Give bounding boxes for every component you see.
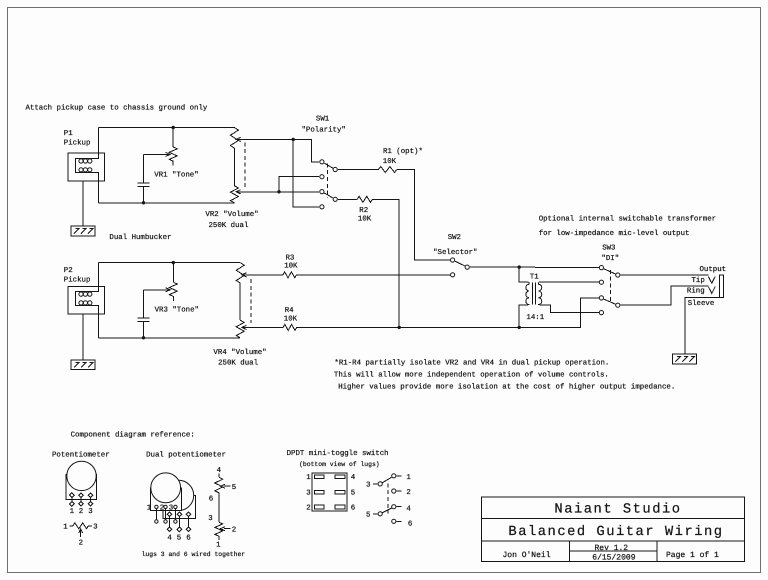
wire SW1 pole2 to R2 bbox=[338, 198, 357, 200]
jack bar bbox=[719, 275, 723, 297]
resistor R2 bbox=[357, 196, 372, 202]
svg-text:4: 4 bbox=[406, 505, 411, 513]
wire P1 case to ground bbox=[82, 181, 84, 226]
svg-text:R2: R2 bbox=[359, 207, 368, 215]
svg-text:10K: 10K bbox=[284, 262, 298, 270]
node wiper2 split bbox=[277, 190, 280, 193]
svg-text:Ring: Ring bbox=[687, 287, 705, 296]
svg-text:4: 4 bbox=[167, 535, 172, 543]
wire bottom bus P1 bbox=[98, 202, 234, 204]
wire SW1 pole1 to R1 bbox=[338, 169, 379, 171]
potentiometer VR4 "Volume" dual section A bbox=[236, 263, 244, 283]
wire wiper1 down to SW1 throw F bbox=[293, 139, 319, 206]
svg-text:Pickup: Pickup bbox=[64, 276, 91, 285]
svg-text:Sleeve: Sleeve bbox=[688, 299, 715, 308]
svg-text:250K dual: 250K dual bbox=[209, 221, 249, 230]
svg-text:Tip: Tip bbox=[692, 276, 705, 285]
switch SW3 DPDT contacts bbox=[599, 266, 620, 315]
svg-text:Output: Output bbox=[700, 266, 727, 274]
wire transformer primary top lead bbox=[519, 267, 527, 282]
wire sleeve to ground bbox=[685, 297, 720, 354]
pickup P2 bbox=[68, 263, 105, 338]
resistor R1 bbox=[378, 167, 396, 173]
dual pot schematic reference chain bbox=[208, 467, 236, 550]
wire VR2A wiper to SW1 bbox=[237, 139, 319, 161]
node VR3 top junction bbox=[172, 261, 175, 264]
potentiometer reference symbol bbox=[66, 461, 96, 516]
wiper VR2A arrow bbox=[236, 137, 241, 141]
node transformer tap bbox=[518, 265, 521, 268]
wiper VR4B arrow bbox=[242, 325, 247, 329]
svg-text:2: 2 bbox=[79, 508, 83, 516]
wire VR2 middle link bbox=[233, 148, 235, 186]
svg-text:VR4 "Volume": VR4 "Volume" bbox=[213, 348, 266, 357]
wire SW3 pole2 to ring bbox=[620, 286, 708, 305]
wire transformer secondary top to SW3 bbox=[541, 281, 599, 283]
resistor R4 bbox=[283, 324, 297, 330]
transformer T1 bbox=[526, 273, 545, 322]
svg-text:2: 2 bbox=[406, 489, 410, 497]
wire return bus R4 to SW3 bbox=[297, 298, 599, 328]
svg-text:Attach pickup case to chassis: Attach pickup case to chassis ground onl… bbox=[26, 104, 208, 113]
wiper VR4A arrow bbox=[242, 273, 247, 277]
svg-text:5: 5 bbox=[366, 511, 370, 519]
node wiper1 split bbox=[292, 138, 295, 141]
gang link VR2 dashed bbox=[244, 142, 246, 187]
svg-text:VR1 "Tone": VR1 "Tone" bbox=[154, 171, 198, 180]
svg-text:"Selector": "Selector" bbox=[433, 248, 477, 257]
wire VR3 top lead bbox=[172, 263, 174, 283]
SW3 gang dashed link bbox=[609, 270, 611, 304]
wire VR2B wiper to SW1 throw D bbox=[237, 191, 319, 193]
ground chassis P1 bbox=[71, 226, 95, 236]
wire VR4B wiper to R4 bbox=[243, 326, 284, 328]
gang link VR4 dashed bbox=[250, 279, 252, 323]
tip contact V bbox=[708, 277, 715, 284]
DPDT toggle body reference bbox=[306, 473, 356, 512]
SW1 blade section B bbox=[324, 193, 333, 198]
svg-text:Potentiometer: Potentiometer bbox=[52, 451, 110, 460]
svg-text:3: 3 bbox=[93, 523, 97, 531]
svg-text:VR2 "Volume": VR2 "Volume" bbox=[205, 210, 258, 219]
wire transformer secondary bottom to SW3 bbox=[541, 305, 599, 313]
SW2 blade bbox=[455, 261, 465, 266]
SW3 blade section B bbox=[604, 299, 616, 304]
node transformer bottom bus bbox=[518, 326, 521, 329]
svg-text:SW3: SW3 bbox=[602, 244, 615, 252]
switch SW1 DPDT contacts bbox=[320, 160, 338, 209]
svg-text:Dual Humbucker: Dual Humbucker bbox=[109, 233, 171, 242]
svg-text:2: 2 bbox=[79, 540, 83, 548]
capacitor tone C1 bbox=[138, 154, 150, 202]
wire VR1 top lead bbox=[172, 128, 174, 148]
wire transformer primary bottom to bus bbox=[519, 305, 527, 328]
svg-text:5: 5 bbox=[177, 535, 181, 543]
potentiometer VR1 "Tone" bbox=[144, 147, 178, 166]
svg-text:6: 6 bbox=[209, 496, 213, 504]
wire SW3 pole1 to tip bbox=[620, 274, 708, 276]
wiper VR2B arrow bbox=[236, 190, 241, 194]
potentiometer schematic reference bbox=[63, 523, 97, 548]
wire P2 case to ground bbox=[82, 314, 84, 360]
svg-text:10K: 10K bbox=[284, 315, 298, 323]
svg-text:3: 3 bbox=[306, 490, 310, 498]
SW1 gang dashed link bbox=[326, 163, 328, 198]
DPDT toggle schematic reference bbox=[366, 474, 412, 529]
capacitor tone C2 bbox=[138, 290, 150, 338]
svg-text:1: 1 bbox=[406, 474, 411, 482]
svg-text:R4: R4 bbox=[285, 307, 294, 315]
svg-text:*R1-R4 partially isolate VR2 a: *R1-R4 partially isolate VR2 and VR4 in … bbox=[334, 358, 609, 367]
svg-text:4: 4 bbox=[217, 467, 222, 475]
node cap to bottom bus bbox=[142, 201, 145, 204]
svg-text:3: 3 bbox=[208, 515, 212, 523]
svg-text:This will allow more independe: This will allow more independent operati… bbox=[334, 370, 609, 379]
ground chassis P2 bbox=[71, 360, 95, 370]
svg-text:2: 2 bbox=[232, 526, 236, 534]
svg-text:P1: P1 bbox=[64, 130, 73, 138]
resistor R3 bbox=[283, 272, 297, 278]
wire R3 to SW2 throw 2 bbox=[297, 274, 451, 276]
svg-text:SW1: SW1 bbox=[316, 116, 330, 124]
pickup P1 bbox=[68, 128, 105, 203]
svg-text:6: 6 bbox=[186, 535, 190, 543]
svg-text:1: 1 bbox=[147, 505, 152, 513]
wire bottom bus P2 bbox=[98, 337, 240, 339]
dual potentiometer reference symbol bbox=[147, 473, 196, 543]
svg-text:14:1: 14:1 bbox=[526, 314, 544, 322]
node cap2 to bottom bus bbox=[142, 336, 145, 339]
svg-text:"DI": "DI" bbox=[601, 254, 619, 263]
svg-text:2: 2 bbox=[306, 504, 310, 512]
svg-text:Higher values provide more iso: Higher values provide more isolation at … bbox=[338, 382, 675, 391]
svg-text:4: 4 bbox=[351, 474, 356, 482]
svg-text:1: 1 bbox=[70, 508, 75, 516]
node VR1 top junction bbox=[172, 126, 175, 129]
svg-text:250K dual: 250K dual bbox=[218, 359, 258, 368]
ground chassis sleeve bbox=[672, 354, 696, 364]
switch SW2 contacts bbox=[451, 258, 470, 277]
svg-text:Optional internal switchable t: Optional internal switchable transformer bbox=[539, 214, 716, 223]
svg-text:(bottom view of lugs): (bottom view of lugs) bbox=[299, 461, 380, 468]
ring contact V bbox=[708, 287, 715, 294]
svg-text:for low-impedance mic-level ou: for low-impedance mic-level output bbox=[539, 229, 690, 238]
svg-text:"Polarity": "Polarity" bbox=[302, 126, 346, 135]
svg-text:6: 6 bbox=[351, 504, 355, 512]
wire top bus P1 bbox=[98, 127, 234, 129]
potentiometer VR3 "Tone" bbox=[144, 282, 178, 301]
svg-text:Pickup: Pickup bbox=[64, 139, 91, 148]
svg-text:Dual potentiometer: Dual potentiometer bbox=[146, 451, 226, 460]
wire R2 down to return bus bbox=[372, 199, 399, 327]
potentiometer VR4 dual section B bbox=[236, 320, 244, 338]
wire top bus P2 bbox=[98, 262, 240, 264]
svg-text:1: 1 bbox=[63, 523, 68, 531]
svg-text:Rev 1.2: Rev 1.2 bbox=[594, 544, 628, 553]
svg-text:3: 3 bbox=[88, 508, 92, 516]
svg-text:2: 2 bbox=[160, 505, 164, 513]
svg-text:VR3 "Tone": VR3 "Tone" bbox=[155, 306, 199, 315]
wire VR4 middle link bbox=[239, 283, 241, 320]
svg-text:Naiant Studio: Naiant Studio bbox=[554, 503, 681, 518]
svg-text:P2: P2 bbox=[64, 267, 73, 275]
wire R1 to SW2 throw 1 bbox=[397, 170, 450, 261]
svg-text:SW2: SW2 bbox=[448, 234, 461, 242]
svg-text:10K: 10K bbox=[358, 215, 372, 223]
svg-text:Component diagram reference:: Component diagram reference: bbox=[71, 431, 195, 440]
svg-text:5: 5 bbox=[232, 484, 236, 492]
wire wiper2 up to SW1 throw C bbox=[279, 177, 319, 192]
svg-text:6: 6 bbox=[408, 520, 412, 528]
potentiometer VR2 "Volume" dual section A bbox=[230, 128, 238, 149]
svg-text:3: 3 bbox=[366, 482, 370, 490]
svg-text:R3: R3 bbox=[286, 254, 295, 262]
svg-text:1: 1 bbox=[216, 541, 221, 549]
svg-text:10K: 10K bbox=[383, 158, 397, 166]
potentiometer VR2 dual section B bbox=[230, 186, 238, 203]
svg-text:3: 3 bbox=[169, 505, 173, 513]
svg-text:DPDT mini-toggle switch: DPDT mini-toggle switch bbox=[287, 449, 389, 458]
svg-text:R1 (opt)*: R1 (opt)* bbox=[383, 147, 423, 156]
svg-text:6/15/2009: 6/15/2009 bbox=[592, 553, 635, 562]
SW1 blade section A bbox=[324, 163, 333, 168]
node R2 to bus bbox=[398, 326, 401, 329]
svg-text:lugs 3 and 6 wired together: lugs 3 and 6 wired together bbox=[142, 551, 246, 558]
wire VR4A wiper to R3 bbox=[243, 274, 283, 276]
svg-text:Balanced Guitar Wiring: Balanced Guitar Wiring bbox=[508, 525, 723, 540]
svg-text:Page 1 of 1: Page 1 of 1 bbox=[666, 551, 719, 560]
title block bbox=[482, 497, 745, 562]
svg-text:5: 5 bbox=[351, 490, 355, 498]
SW3 blade section A bbox=[604, 269, 616, 274]
svg-text:Jon O'Neil: Jon O'Neil bbox=[502, 551, 550, 560]
svg-text:T1: T1 bbox=[530, 273, 539, 281]
svg-text:1: 1 bbox=[306, 474, 311, 482]
wire SW2 pole to transformer node bbox=[470, 266, 599, 268]
